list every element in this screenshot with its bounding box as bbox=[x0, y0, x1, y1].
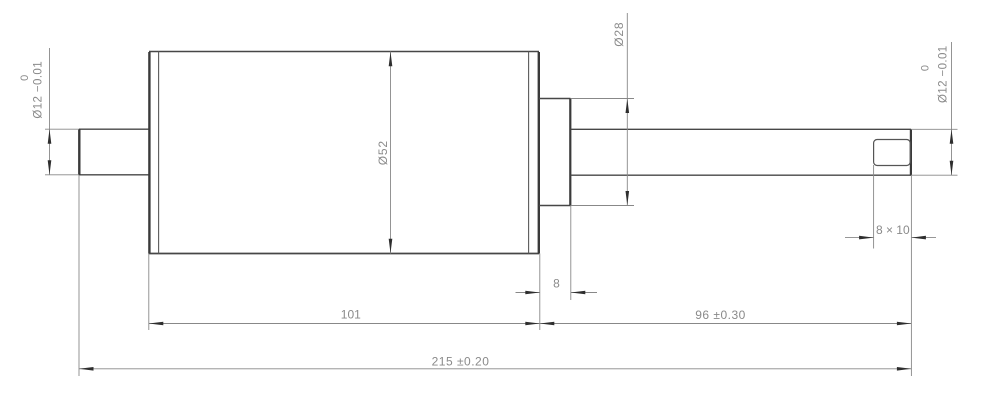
dimension: left Ø12 dimension line bbox=[49, 48, 51, 175]
motor body outline bbox=[149, 52, 539, 254]
arrow 101 right bbox=[525, 322, 540, 326]
extension line keyway left bbox=[873, 165, 875, 249]
svg-text:101: 101 bbox=[341, 308, 361, 322]
arrow Ø52 down bbox=[389, 239, 393, 254]
dimension: right Ø12 dimension line bbox=[951, 42, 953, 175]
svg-text:Ø28: Ø28 bbox=[612, 22, 626, 47]
arrow Ø28 down bbox=[626, 191, 630, 206]
arrow 8x10 left bbox=[859, 236, 874, 240]
body left chamfer line bbox=[158, 52, 160, 254]
dimension: Ø28 dimension line bbox=[626, 13, 628, 206]
svg-text:215 ±0.20: 215 ±0.20 bbox=[432, 355, 490, 369]
extension line for 8 dim at step right bbox=[570, 206, 572, 301]
arrow 96 left bbox=[540, 322, 555, 326]
svg-text:8 × 10: 8 × 10 bbox=[876, 223, 910, 237]
dimension: 8 dimension line left segment bbox=[516, 292, 540, 294]
extension line 215 left at shaft bbox=[78, 175, 80, 376]
dimension: right Ø12 extension lines bbox=[911, 129, 958, 175]
dimension: Ø28 extension lines bbox=[571, 99, 635, 206]
extension line keyway right / shaft end bbox=[910, 175, 912, 376]
svg-text:0: 0 bbox=[920, 65, 932, 71]
svg-text:96 ±0.30: 96 ±0.30 bbox=[695, 308, 746, 322]
svg-text:Ø12 −0.01: Ø12 −0.01 bbox=[938, 45, 950, 103]
svg-text:0: 0 bbox=[19, 75, 31, 81]
right shaft outline bbox=[571, 129, 912, 175]
arrow left Ø12 up bbox=[48, 129, 52, 144]
arrow 215 left bbox=[79, 367, 94, 371]
dimension: 8 dimension line right segment bbox=[571, 292, 597, 294]
dimension: 8x10 dimension line left segment bbox=[845, 237, 874, 239]
arrow right Ø12 up bbox=[950, 129, 954, 144]
svg-text:Ø12 −0.01: Ø12 −0.01 bbox=[33, 61, 45, 119]
arrow 8 left bbox=[525, 291, 540, 295]
arrow Ø52 up bbox=[389, 52, 393, 67]
svg-text:Ø52: Ø52 bbox=[376, 140, 390, 165]
dimension: 96 dimension line bbox=[540, 323, 912, 325]
arrow 8 right bbox=[571, 291, 586, 295]
keyway on right shaft end bbox=[874, 140, 911, 166]
extension line 101/215 at body left bbox=[148, 254, 150, 331]
dimension: 8x10 dimension line right segment bbox=[911, 237, 936, 239]
extension line for 8 dim at body right bbox=[539, 254, 541, 331]
svg-text:8: 8 bbox=[553, 277, 560, 291]
arrow 96 right bbox=[897, 322, 912, 326]
arrow Ø28 up bbox=[626, 99, 630, 114]
dimension: Ø52 dimension line bbox=[390, 52, 392, 254]
dimension: 215 dimension line bbox=[79, 368, 911, 370]
arrow 8x10 right bbox=[911, 236, 926, 240]
dimension: left Ø12 extension lines bbox=[45, 129, 79, 175]
arrow left Ø12 down bbox=[48, 160, 52, 175]
step (boss) outline bbox=[539, 99, 571, 206]
arrow 215 right bbox=[897, 367, 912, 371]
dimension: 101 dimension line bbox=[149, 323, 540, 325]
left shaft outline bbox=[79, 129, 149, 175]
arrow 101 left bbox=[149, 322, 164, 326]
body right chamfer line bbox=[528, 52, 530, 254]
arrow right Ø12 down bbox=[950, 161, 954, 176]
